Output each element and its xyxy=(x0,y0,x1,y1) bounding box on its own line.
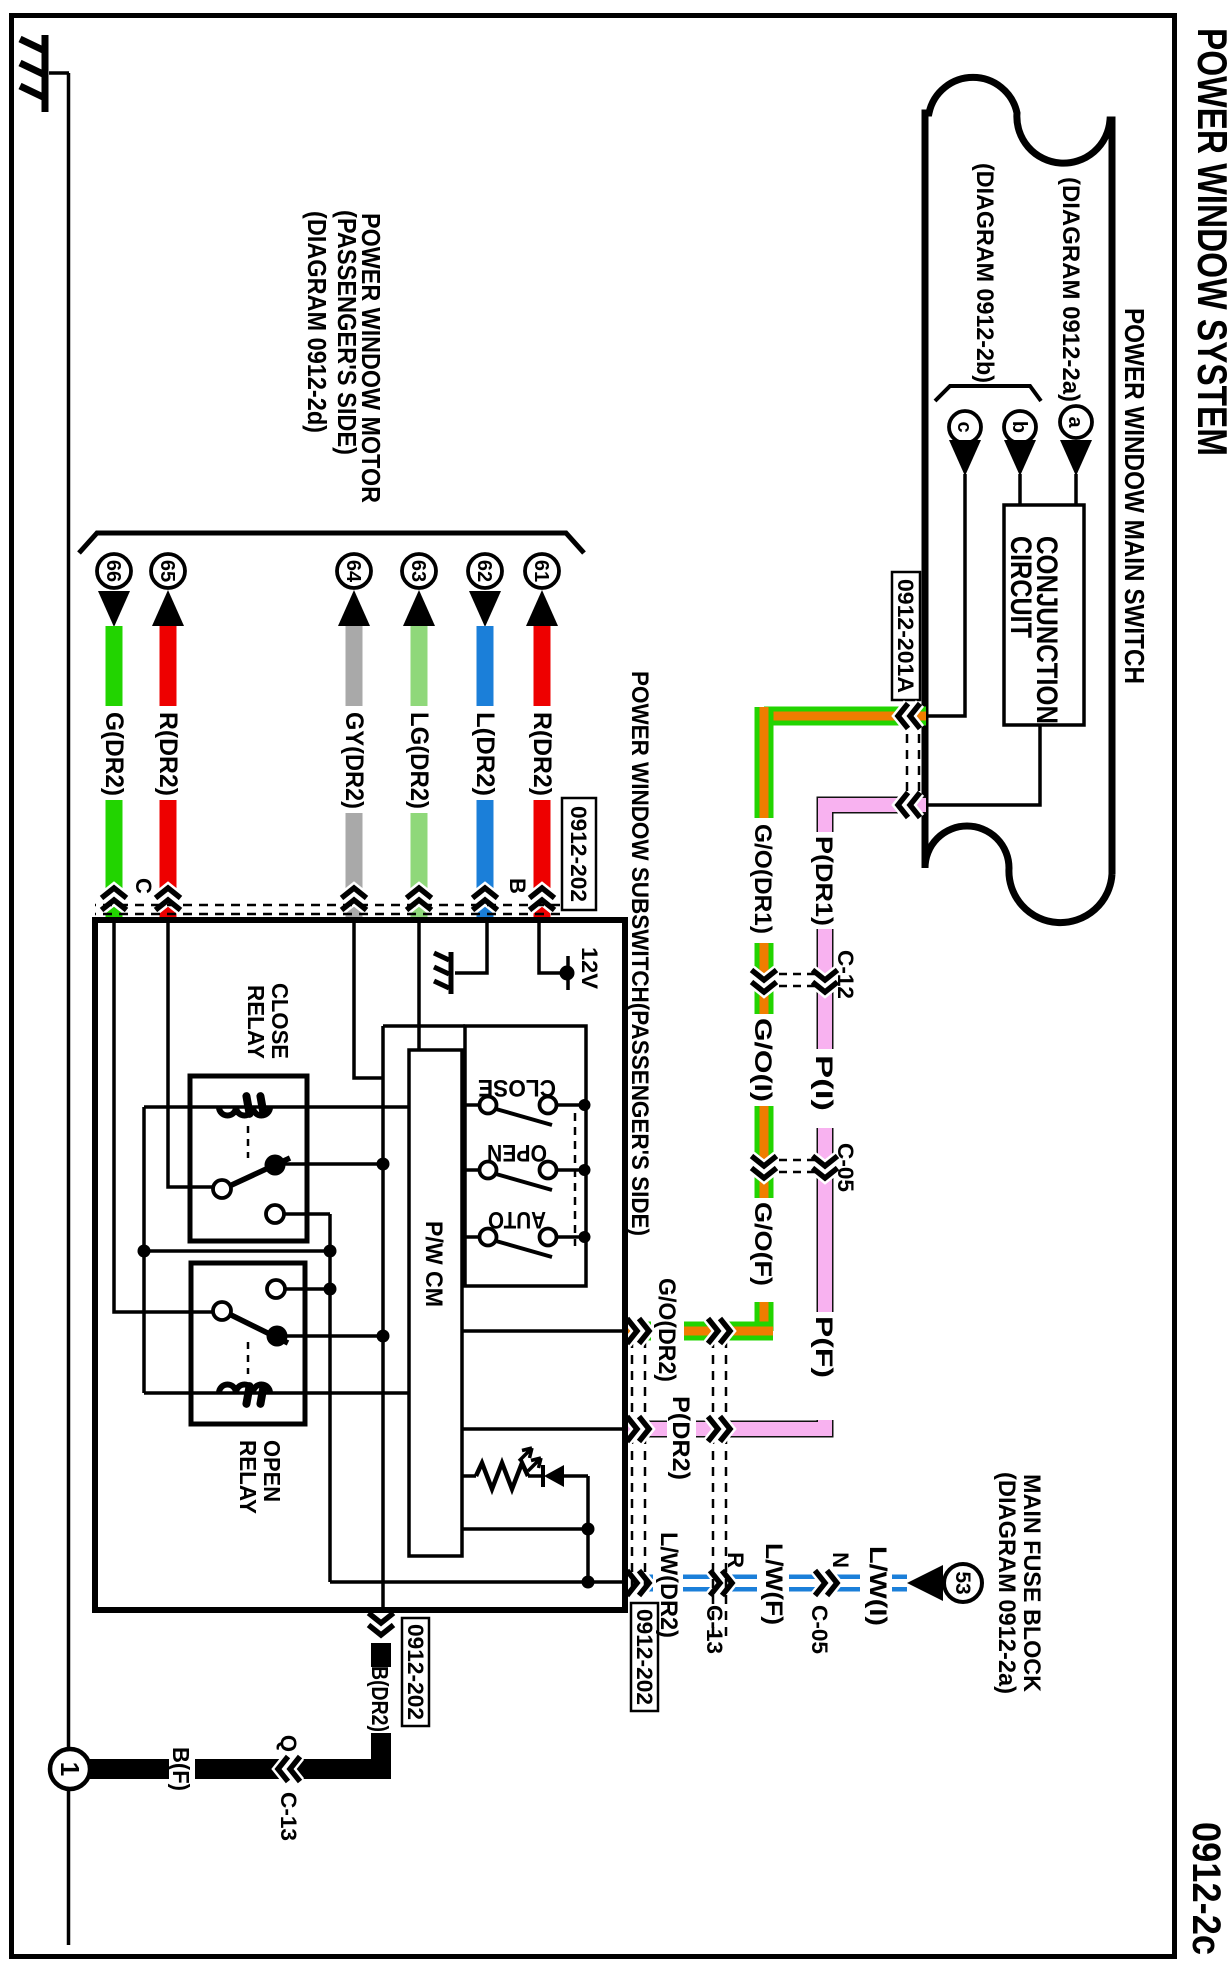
svg-text:B: B xyxy=(505,878,530,894)
wire P vertical at main switch xyxy=(825,805,926,832)
wire ground bus to B xyxy=(381,1026,385,1610)
svg-text:G/O(F): G/O(F) xyxy=(749,1202,776,1286)
arrow pin 65 xyxy=(152,590,184,626)
svg-text:L/W(I): L/W(I) xyxy=(864,1546,891,1626)
svg-text:P(DR2): P(DR2) xyxy=(667,1396,694,1480)
svg-text:Q: Q xyxy=(276,1735,301,1752)
brace motor connector group xyxy=(79,533,584,553)
connector chevrons G/O exits xyxy=(639,1319,649,1344)
switch bank box xyxy=(465,1026,586,1286)
open relay box xyxy=(191,1263,305,1424)
wire GY feed xyxy=(354,923,383,1078)
node 1 (ground point) xyxy=(50,1749,90,1789)
svg-text:12V: 12V xyxy=(577,947,602,989)
motor pin 66 circle xyxy=(97,554,131,588)
close relay coil xyxy=(219,1107,270,1116)
wire relay contact rail xyxy=(328,1214,332,1582)
connector chevrons R(DR2) xyxy=(156,888,181,898)
svg-text:C-13: C-13 xyxy=(276,1792,301,1841)
svg-text:R(DR2): R(DR2) xyxy=(528,712,556,796)
close relay dashed link xyxy=(247,1126,250,1158)
svg-text:L(DR2): L(DR2) xyxy=(471,712,499,796)
wire ground feed xyxy=(455,923,487,973)
switch OPEN xyxy=(579,1164,591,1176)
svg-text:C-05: C-05 xyxy=(807,1605,832,1654)
open relay coil line xyxy=(144,1391,409,1395)
P/W CM box xyxy=(409,1050,462,1556)
svg-text:P/W CM: P/W CM xyxy=(420,1221,447,1307)
connector chevrons B(DR2) xyxy=(369,1625,394,1635)
svg-text:OPEN: OPEN xyxy=(487,1139,547,1166)
svg-text:(DIAGRAM 0912-2a): (DIAGRAM 0912-2a) xyxy=(1057,177,1084,402)
connector dashed line level 2 xyxy=(725,1339,728,1642)
open relay coil xyxy=(219,1385,270,1394)
brace b/c group xyxy=(935,386,1041,401)
ground symbol subswitch xyxy=(434,952,451,994)
svg-text:POWER WINDOW SYSTEM: POWER WINDOW SYSTEM xyxy=(1189,28,1229,456)
svg-text:0912-202: 0912-202 xyxy=(632,1609,657,1705)
svg-text:a: a xyxy=(1064,416,1086,428)
svg-text:(DIAGRAM 0912-2a): (DIAGRAM 0912-2a) xyxy=(993,1472,1020,1694)
arrow connector b xyxy=(1004,440,1036,476)
switch mechanical dashed link xyxy=(574,1113,577,1246)
wire G(DR2) motor side xyxy=(106,626,123,706)
conjunction circuit box xyxy=(1004,505,1084,725)
wire LG(DR2) motor side xyxy=(411,626,428,706)
svg-text:1: 1 xyxy=(55,1762,85,1776)
svg-text:B(F): B(F) xyxy=(168,1747,194,1791)
svg-text:LG(DR2): LG(DR2) xyxy=(405,712,433,809)
connector chevrons LG(DR2) xyxy=(407,888,432,898)
12V terminal xyxy=(560,966,575,981)
svg-text:(DIAGRAM 0912-2b): (DIAGRAM 0912-2b) xyxy=(971,163,998,383)
wire b xyxy=(1018,474,1022,505)
wire LG feed to P/W CM xyxy=(417,923,421,1050)
switch AUTO xyxy=(579,1231,591,1243)
svg-text:0912-202: 0912-202 xyxy=(403,1624,428,1720)
svg-text:0912-202: 0912-202 xyxy=(566,806,591,902)
motor pin 63 circle xyxy=(402,554,436,588)
arrow connector a xyxy=(1060,440,1092,476)
svg-text:C-12: C-12 xyxy=(833,950,858,999)
wire resistor branch xyxy=(462,1474,476,1478)
wire P drop to subswitch xyxy=(696,1420,825,1429)
wire G feed to open relay xyxy=(114,923,214,1312)
close relay pivot xyxy=(265,1155,286,1176)
svg-text:CIRCUIT: CIRCUIT xyxy=(1004,536,1037,638)
arrow pin 64 xyxy=(338,590,370,626)
close relay coil line xyxy=(144,1105,409,1109)
wire G/O drop to subswitch xyxy=(684,1322,773,1341)
connector dashed line level 1 xyxy=(644,1339,647,1593)
svg-text:0912-2c: 0912-2c xyxy=(1184,1822,1228,1955)
svg-text:G(DR2): G(DR2) xyxy=(100,712,128,796)
motor pin 62 circle xyxy=(468,554,502,588)
svg-text:(PASSENGER'S SIDE): (PASSENGER'S SIDE) xyxy=(332,210,362,455)
svg-text:OPEN: OPEN xyxy=(259,1440,285,1502)
svg-text:66: 66 xyxy=(102,560,124,582)
close relay pivot wire to bus xyxy=(285,1162,383,1166)
wire GY(DR2) motor side xyxy=(346,626,363,706)
wire G/O vertical at main switch xyxy=(764,707,926,726)
ground symbol page corner xyxy=(49,71,69,75)
arrow to main fuse block xyxy=(907,1565,943,1601)
LED xyxy=(528,1474,542,1478)
svg-text:GY(DR2): GY(DR2) xyxy=(340,712,368,809)
svg-text:P(I): P(I) xyxy=(810,1055,837,1111)
svg-text:C: C xyxy=(131,878,156,894)
svg-text:P(F): P(F) xyxy=(810,1316,837,1378)
connector c circle xyxy=(949,411,981,443)
LED arrows xyxy=(528,1458,541,1471)
open relay NO contact xyxy=(267,1280,285,1298)
svg-text:R(DR2): R(DR2) xyxy=(154,712,182,796)
svg-text:b: b xyxy=(1008,421,1030,433)
connector chevrons G(DR2) xyxy=(102,888,127,898)
connector dashed line motor-subswitch xyxy=(95,904,560,907)
svg-text:C-05: C-05 xyxy=(833,1143,858,1192)
motor pin 65 circle xyxy=(151,554,185,588)
label 0912-202 (L/W connector) xyxy=(631,1603,658,1711)
power window main switch outline xyxy=(925,77,1112,874)
switch CLOSE xyxy=(579,1099,591,1111)
svg-text:G/O(DR1): G/O(DR1) xyxy=(749,824,776,934)
svg-text:CLOSE: CLOSE xyxy=(478,1074,556,1101)
wire L/W subswitch to fuse block xyxy=(625,1575,653,1592)
connector b circle xyxy=(1004,411,1036,443)
wire G/O internal xyxy=(462,1329,622,1333)
connector chevrons P exits xyxy=(639,1417,649,1442)
power window subswitch box xyxy=(95,920,625,1610)
open relay pivot xyxy=(267,1326,288,1347)
wire G/O horizontal run xyxy=(755,707,774,818)
wire R feed to close relay xyxy=(168,923,213,1187)
svg-text:63: 63 xyxy=(407,560,429,582)
wire coil bottom link xyxy=(142,1107,146,1393)
close relay box xyxy=(190,1076,307,1241)
close relay NC contact xyxy=(266,1205,284,1223)
wire ground rail xyxy=(67,73,71,1945)
wire L/W feed vertical xyxy=(330,1580,625,1584)
wire B(DR2) subswitch to node 1 xyxy=(371,1643,391,1667)
open relay pivot wire to bus xyxy=(287,1334,383,1338)
arrow pin 62 xyxy=(469,591,501,627)
arrow connector c xyxy=(949,440,981,476)
svg-text:MAIN FUSE BLOCK: MAIN FUSE BLOCK xyxy=(1018,1474,1045,1693)
wire 12V feed xyxy=(539,923,566,973)
close relay NC wire xyxy=(284,1212,330,1216)
connector chevrons L/W at subswitch xyxy=(639,1571,649,1596)
arrow pin 66 xyxy=(98,591,130,627)
wire P internal xyxy=(462,1427,622,1431)
arrow pin 61 xyxy=(526,590,558,626)
svg-text:AUTO: AUTO xyxy=(488,1206,546,1233)
motor pin 64 circle xyxy=(337,554,371,588)
connector chevrons main switch P xyxy=(898,793,908,818)
open relay common contact xyxy=(213,1302,231,1320)
resistor xyxy=(476,1463,528,1489)
svg-text:(DIAGRAM 0912-2d): (DIAGRAM 0912-2d) xyxy=(302,211,332,433)
open relay blade xyxy=(223,1311,288,1343)
connector Q / C-13 on B wire xyxy=(278,1757,288,1782)
svg-text:65: 65 xyxy=(156,560,178,582)
close relay blade xyxy=(223,1158,290,1189)
wire second branch xyxy=(462,1527,588,1531)
svg-text:N: N xyxy=(828,1552,853,1568)
svg-text:G/O(DR2): G/O(DR2) xyxy=(653,1278,680,1382)
wire L(DR2) motor side xyxy=(477,626,494,706)
svg-text:RELAY: RELAY xyxy=(243,985,269,1059)
svg-text:G/O(I): G/O(I) xyxy=(749,1018,776,1102)
svg-text:64: 64 xyxy=(342,560,364,583)
motor pin 61 circle xyxy=(525,554,559,588)
connector chevrons main switch G/O xyxy=(898,704,908,729)
open relay dashed link xyxy=(247,1342,250,1374)
svg-text:53: 53 xyxy=(951,1571,974,1594)
svg-text:C-13: C-13 xyxy=(702,1605,727,1654)
label 0912-202 (motor connector) xyxy=(562,798,596,910)
connector a circle xyxy=(1060,406,1092,438)
label 0912-201A xyxy=(892,572,920,700)
svg-text:POWER WINDOW MAIN SWITCH: POWER WINDOW MAIN SWITCH xyxy=(1119,308,1150,684)
wire R(DR2) motor side xyxy=(160,626,177,706)
wire LED top link xyxy=(586,1476,590,1582)
close relay common contact xyxy=(213,1180,231,1198)
wire P horizontal run xyxy=(817,929,834,1049)
wire a xyxy=(1074,474,1078,505)
wire coil rung xyxy=(144,1249,330,1253)
svg-text:B(DR2): B(DR2) xyxy=(367,1666,393,1732)
wire c xyxy=(927,474,965,716)
arrow pin 63 xyxy=(403,590,435,626)
svg-text:62: 62 xyxy=(473,560,495,582)
svg-text:c: c xyxy=(953,421,975,432)
svg-text:P(DR1): P(DR1) xyxy=(810,836,837,926)
svg-text:0912-201A: 0912-201A xyxy=(893,579,918,693)
node 53 circle xyxy=(944,1564,982,1602)
svg-text:RELAY: RELAY xyxy=(235,1440,261,1514)
connector chevrons R(DR2) xyxy=(530,888,555,898)
connector chevrons GY(DR2) xyxy=(342,888,367,898)
connector C-12 xyxy=(752,982,777,992)
connector R / C-13 xyxy=(722,1571,732,1596)
label 0912-202 (B connector) xyxy=(402,1618,429,1726)
svg-text:POWER WINDOW SUBSWITCH(PASSENG: POWER WINDOW SUBSWITCH(PASSENGER'S SIDE) xyxy=(626,671,653,1236)
wire R(DR2) motor side xyxy=(534,626,551,706)
connector N / C-05 xyxy=(827,1571,837,1596)
wire conjunction to P xyxy=(927,725,1040,805)
svg-text:CLOSE: CLOSE xyxy=(267,983,293,1059)
open relay NO wire xyxy=(285,1287,330,1291)
connector dashed line 0912-201A xyxy=(918,734,921,792)
svg-text:61: 61 xyxy=(530,560,552,582)
connector chevrons L(DR2) xyxy=(473,888,498,898)
connector C-05 xyxy=(752,1168,777,1178)
svg-text:L/W(F): L/W(F) xyxy=(760,1543,787,1625)
